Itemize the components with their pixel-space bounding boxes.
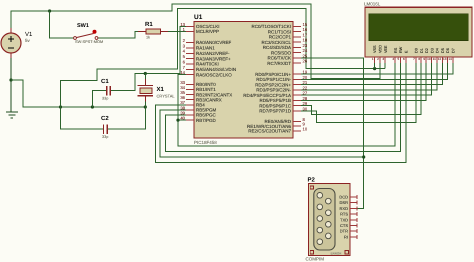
svg-text:RE2/CS/C2OUT/AN7: RE2/CS/C2OUT/AN7	[248, 129, 291, 134]
svg-text:RA2/AN2/VREF-: RA2/AN2/VREF-	[196, 51, 230, 56]
pin 13 OSC1/CLKI	[186, 25, 194, 27]
pin 37 RB4	[186, 104, 194, 106]
svg-text:D4: D4	[436, 48, 440, 53]
svg-text:3: 3	[183, 43, 186, 48]
svg-text:12: 12	[438, 57, 442, 61]
svg-text:RA3/AN3/VREF+: RA3/AN3/VREF+	[196, 56, 231, 61]
pin 1 MCLR/VPP	[186, 30, 194, 32]
svg-text:X1: X1	[157, 86, 165, 93]
pin 16 RC1/T1OSI	[293, 31, 301, 33]
pin 19 RD0/PSP0/C1IN+	[293, 73, 301, 75]
pin 5 RA3/AN3/VREF+	[186, 58, 194, 60]
wire RB7 join	[178, 119, 187, 121]
wire RD2 to LCD D5	[300, 63, 442, 85]
svg-text:DTR: DTR	[340, 229, 348, 234]
wire C1 left to gnd	[92, 91, 106, 107]
pin 24 RC5/SDO	[293, 52, 301, 54]
svg-text:RTS: RTS	[340, 212, 348, 217]
svg-text:16: 16	[303, 27, 308, 32]
pin 3 LCD VEE	[384, 57, 386, 63]
svg-text:D2: D2	[425, 48, 429, 53]
svg-text:RA6/OSC2/CLKO: RA6/OSC2/CLKO	[196, 72, 232, 77]
svg-text:D0: D0	[415, 48, 419, 53]
pin 21 RD2/PSP2/C2IN+	[293, 84, 301, 86]
pin 25 RC6/TX/CK	[293, 57, 301, 59]
svg-text:P2: P2	[308, 177, 316, 184]
svg-text:RC7/RX/DT: RC7/RX/DT	[267, 61, 291, 66]
wire RD5 to LCD D2	[300, 63, 426, 100]
pin 33 RB0/INT0	[186, 83, 194, 85]
svg-text:7: 7	[183, 65, 186, 70]
pin 5 LCD RW	[399, 57, 401, 63]
wire OSC1 to crystal top / C1	[110, 27, 187, 91]
svg-text:18: 18	[303, 38, 308, 43]
wire RD6 to LCD D1	[300, 63, 421, 114]
svg-text:VDD: VDD	[379, 45, 383, 53]
wire ground riser to VSS rail	[61, 9, 386, 108]
svg-text:V1: V1	[25, 31, 33, 38]
svg-text:RA1/AN1: RA1/AN1	[196, 46, 215, 51]
svg-text:MCLR/VPP: MCLR/VPP	[196, 29, 219, 34]
pin P2 DTR	[350, 230, 357, 232]
DB9 connector graphic	[314, 189, 335, 251]
pin P2 RI	[350, 236, 357, 238]
pin P2 DCD	[350, 196, 357, 198]
svg-text:RI: RI	[344, 234, 348, 239]
switch SW1	[74, 37, 77, 40]
svg-text:D6: D6	[446, 48, 450, 53]
svg-text:RC5/SDO: RC5/SDO	[271, 50, 292, 55]
pin 20 RD1/PSP1/C1IN-	[293, 78, 301, 80]
svg-text:13: 13	[443, 57, 447, 61]
junction gnd rail / riser	[59, 105, 62, 108]
pin 6 LCD E	[405, 57, 407, 63]
pin 3 RA1/AN1	[186, 47, 194, 49]
pin 14 LCD D7	[452, 57, 454, 63]
pin 23 RC4/SDI/SDA	[293, 46, 301, 48]
capacitor C2 33p	[103, 125, 105, 135]
voltage source V1	[10, 28, 12, 33]
pin 8 RE0/AN5/RD	[293, 121, 301, 123]
svg-text:11: 11	[433, 57, 436, 61]
wire crystal top lead	[144, 74, 146, 80]
pin P2 RXD	[350, 207, 357, 209]
svg-text:14: 14	[180, 70, 185, 75]
wire RD4 to LCD D3	[300, 63, 432, 95]
svg-text:28: 28	[303, 96, 308, 101]
wire MCLR reset branch via SW1	[50, 11, 74, 38]
svg-text:RD3/PSP3/C2IN-: RD3/PSP3/C2IN-	[256, 88, 291, 93]
svg-text:8: 8	[418, 57, 420, 61]
pin 9 RE1/WR/C1OUT/AN6	[293, 125, 301, 127]
svg-text:R1: R1	[145, 21, 153, 28]
pin 38 RB5/PGM	[186, 109, 194, 111]
wire SW1 to R1	[98, 31, 141, 38]
svg-text:7: 7	[413, 57, 415, 61]
junction gnd rail / C1	[91, 105, 94, 108]
svg-text:RA4/T0CKI: RA4/T0CKI	[196, 62, 219, 67]
pin 40 RB7/PGD	[186, 119, 194, 121]
wire crystal bottom lead to gnd	[144, 96, 146, 102]
pin 4 RA2/AN2/VREF-	[186, 52, 194, 54]
svg-text:RD7/PSP7/P1D: RD7/PSP7/P1D	[259, 109, 292, 114]
wire RB6 to LCD RW	[166, 63, 401, 152]
wire RD3 to LCD D4	[300, 63, 437, 90]
svg-text:33p: 33p	[102, 97, 108, 101]
wire RC6/TX to P2 RXD	[300, 58, 364, 209]
capacitor C1 33p	[106, 86, 108, 96]
pin 18 RC3/SCK/SCL	[293, 41, 301, 43]
svg-text:RS: RS	[394, 47, 398, 53]
svg-text:CTS: CTS	[340, 223, 348, 228]
svg-text:10: 10	[303, 126, 308, 131]
svg-text:20: 20	[303, 75, 308, 80]
pin 39 RB6/PGC	[186, 114, 194, 116]
svg-text:LM016L: LM016L	[364, 2, 381, 7]
svg-text:D3: D3	[430, 48, 434, 53]
svg-text:26: 26	[303, 59, 308, 64]
wire VDD rail from V1 top	[11, 4, 380, 78]
pin 1 LCD VSS	[374, 57, 376, 63]
pin 4 LCD RS	[394, 57, 396, 63]
svg-text:U1: U1	[194, 14, 203, 21]
svg-text:14: 14	[448, 57, 452, 61]
svg-text:40: 40	[180, 116, 185, 121]
pin 2 LCD VDD	[379, 57, 381, 63]
pin 30 RD7/PSP7/P1D	[293, 110, 301, 112]
pin P2 TXD	[350, 219, 357, 221]
junction gnd rail / X1 / C2	[144, 105, 147, 108]
wire LCD VSS drop	[374, 63, 376, 69]
svg-text:C1: C1	[101, 78, 109, 85]
svg-text:DSR: DSR	[340, 200, 349, 205]
svg-text:4: 4	[183, 49, 186, 54]
svg-text:RB7/PGD: RB7/PGD	[196, 118, 217, 123]
pin P2 RTS	[350, 213, 357, 215]
pin 11 LCD D4	[436, 57, 438, 63]
junction VSS/VEE gnd	[373, 67, 376, 70]
pin 2 RA0/AN0/CVREF	[186, 42, 194, 44]
svg-text:RC3/SCK/SCL: RC3/SCK/SCL	[261, 40, 291, 45]
pin 27 RD4/PSP4/ECCP1/P1A	[293, 94, 301, 96]
pin 26 RC7/RX/DT	[293, 62, 301, 64]
junction RB7/RA6 riser	[176, 119, 179, 122]
svg-text:5: 5	[183, 54, 186, 59]
svg-text:RD5/PSP5/P1B: RD5/PSP5/P1B	[259, 98, 291, 103]
ground	[6, 111, 18, 113]
svg-text:5v: 5v	[25, 38, 31, 43]
pin 7 LCD D0	[415, 57, 417, 63]
svg-text:6: 6	[403, 57, 405, 61]
pin 10 RE2/CS/C2OUT/AN7	[293, 130, 301, 132]
pin 28 RD5/PSP5/P1B	[293, 99, 301, 101]
wire RB4 to LCD E	[155, 63, 405, 163]
svg-text:PIC18F458: PIC18F458	[194, 140, 217, 145]
svg-text:D1: D1	[420, 48, 424, 53]
pin 8 LCD D1	[420, 57, 422, 63]
svg-text:D5: D5	[441, 48, 445, 53]
junction V1-/gnd rail	[9, 78, 12, 81]
svg-text:D7: D7	[452, 48, 456, 53]
resistor R1	[138, 30, 146, 32]
wire LCD VEE drop	[384, 63, 386, 69]
pin 29 RD6/PSP6/P1C	[293, 105, 301, 107]
svg-text:22: 22	[303, 85, 308, 90]
pin 13 LCD D6	[447, 57, 449, 63]
op U1 PIC18F458 microcontroller	[194, 22, 293, 139]
svg-text:VEE: VEE	[384, 45, 388, 53]
svg-text:CRYSTAL: CRYSTAL	[157, 94, 176, 99]
pin P2 DSR	[350, 202, 357, 204]
svg-text:TXD: TXD	[340, 217, 348, 222]
wire RD0 to LCD D7	[300, 63, 453, 74]
svg-text:RC1/T1OSI: RC1/T1OSI	[268, 29, 291, 34]
svg-text:33p: 33p	[102, 135, 108, 139]
svg-text:ERROR: ERROR	[331, 252, 343, 256]
crystal X1	[137, 85, 153, 87]
wire C2 left	[61, 107, 104, 129]
junction crystal top	[144, 72, 147, 75]
svg-text:VSS: VSS	[373, 45, 377, 53]
svg-text:2: 2	[183, 38, 186, 43]
svg-text:24: 24	[303, 48, 308, 53]
pin 12 LCD D5	[441, 57, 443, 63]
pin 35 RB2/INT2/CANTX	[186, 94, 194, 96]
svg-text:RA0/AN0/CVREF: RA0/AN0/CVREF	[196, 40, 232, 45]
svg-text:30: 30	[303, 106, 308, 111]
pin 7 RA5/AN4/SS/LVDIN	[186, 68, 194, 70]
svg-text:1k: 1k	[146, 36, 150, 40]
svg-text:9: 9	[423, 57, 425, 61]
pin P2 CTS	[350, 225, 357, 227]
svg-text:2: 2	[377, 57, 379, 61]
svg-text:SW1: SW1	[77, 23, 89, 29]
wire ground feeder	[11, 80, 145, 107]
svg-text:COMPIM: COMPIM	[306, 257, 325, 262]
svg-text:RA5/AN4/SS/LVDIN: RA5/AN4/SS/LVDIN	[196, 67, 236, 72]
svg-text:SW-SPST-MOM: SW-SPST-MOM	[75, 39, 103, 44]
svg-text:10: 10	[427, 57, 431, 61]
wire RB5 to node TX	[160, 110, 364, 157]
svg-text:E: E	[404, 50, 408, 53]
svg-text:C2: C2	[101, 115, 109, 122]
svg-text:RW: RW	[399, 46, 403, 53]
wire RD1 to LCD D6	[300, 63, 448, 79]
pin 9 LCD D2	[425, 57, 427, 63]
svg-text:1: 1	[372, 57, 374, 61]
junction VDD/SW1	[48, 9, 51, 12]
svg-text:3: 3	[382, 57, 384, 61]
wire C2 right to gnd	[107, 107, 145, 129]
wire R1 to MCLR pin	[166, 30, 187, 32]
wire RA6/OSC2 to rail RS	[178, 63, 395, 146]
pin 34 RB1/INT1	[186, 89, 194, 91]
pin 6 RA4/T0CKI	[186, 63, 194, 65]
wire V1 minus to ground	[10, 53, 12, 112]
svg-text:5: 5	[397, 57, 399, 61]
svg-text:4: 4	[392, 57, 394, 61]
svg-text:RD1/PSP1/C1IN-: RD1/PSP1/C1IN-	[256, 77, 291, 82]
svg-text:DCD: DCD	[339, 195, 348, 200]
pin 17 RC2/CCP1	[293, 36, 301, 38]
pin 10 LCD D3	[431, 57, 433, 63]
pin 15 RC0/T1OSO/T1CKI	[293, 25, 301, 27]
pin 14 RA6/OSC2/CLKO	[186, 74, 194, 76]
pin 36 RB3/CANRX	[186, 99, 194, 101]
junction TX rail	[362, 155, 365, 158]
svg-text:RXD: RXD	[340, 206, 349, 211]
wire RD7 to LCD D0	[300, 63, 416, 123]
svg-text:6: 6	[183, 59, 186, 64]
pin 22 RD3/PSP3/C2IN-	[293, 89, 301, 91]
